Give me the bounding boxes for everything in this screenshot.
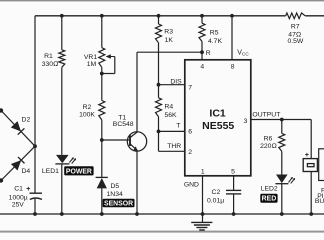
svg-text:VR1: VR1 (84, 54, 97, 61)
svg-text:CC: CC (242, 52, 249, 57)
svg-text:1000µ: 1000µ (9, 195, 28, 202)
svg-text:C2: C2 (212, 189, 221, 196)
svg-text:OUTPUT: OUTPUT (252, 111, 280, 118)
svg-text:3: 3 (244, 118, 248, 125)
svg-text:+: + (305, 152, 309, 159)
svg-text:RED: RED (262, 196, 277, 203)
svg-text:330Ω: 330Ω (42, 61, 59, 68)
svg-text:1N34: 1N34 (107, 191, 123, 198)
svg-text:C1: C1 (14, 186, 23, 193)
svg-text:4.7K: 4.7K (208, 38, 222, 45)
svg-text:25V: 25V (12, 202, 25, 209)
svg-text:0.5W: 0.5W (287, 38, 303, 45)
svg-text:6: 6 (188, 128, 192, 135)
svg-text:T: T (176, 123, 180, 130)
svg-text:100K: 100K (79, 111, 95, 118)
svg-text:0.01µ: 0.01µ (207, 198, 224, 205)
svg-text:BUZZER: BUZZER (315, 198, 324, 205)
svg-text:THR: THR (167, 143, 181, 150)
svg-text:1: 1 (201, 169, 205, 176)
svg-text:2: 2 (188, 149, 192, 156)
svg-text:R5: R5 (210, 30, 219, 37)
svg-text:LED2: LED2 (261, 186, 278, 193)
svg-text:8: 8 (231, 63, 235, 70)
svg-text:R7: R7 (291, 24, 300, 31)
svg-text:DIS: DIS (170, 79, 182, 86)
svg-text:5: 5 (231, 169, 235, 176)
svg-text:220Ω: 220Ω (260, 143, 277, 150)
svg-text:D4: D4 (21, 168, 30, 175)
svg-text:D2: D2 (22, 117, 31, 124)
svg-text:1K: 1K (165, 37, 174, 44)
svg-text:56K: 56K (165, 112, 178, 119)
svg-text:R1: R1 (44, 53, 53, 60)
svg-text:R6: R6 (264, 136, 273, 143)
svg-text:BC548: BC548 (113, 121, 134, 128)
svg-text:SENSOR: SENSOR (104, 201, 133, 208)
svg-text:GND: GND (184, 182, 199, 189)
svg-text:R: R (206, 50, 211, 57)
svg-text:D5: D5 (111, 183, 120, 190)
svg-text:LED1: LED1 (42, 168, 59, 175)
svg-text:R4: R4 (165, 104, 174, 111)
svg-text:1M: 1M (87, 61, 97, 68)
svg-text:+: + (26, 186, 30, 193)
svg-text:POWER: POWER (66, 168, 92, 175)
svg-text:7: 7 (188, 84, 192, 91)
svg-text:R3: R3 (164, 29, 173, 36)
svg-text:NE555: NE555 (202, 120, 234, 132)
svg-text:R2: R2 (83, 104, 92, 111)
svg-text:4: 4 (200, 63, 204, 70)
svg-text:IC1: IC1 (209, 108, 226, 120)
